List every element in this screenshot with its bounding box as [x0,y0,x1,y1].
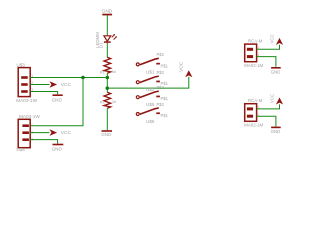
ground RCA top [257,57,281,75]
svg-text:U$3: U$3 [16,62,25,67]
svg-text:U$1: U$1 [146,69,155,74]
resistor R1 [100,57,116,74]
wire [106,15,108,36]
switch U$2 [136,70,168,92]
svg-text:P$2: P$2 [157,85,165,90]
svg-text:P$2: P$2 [157,52,165,57]
svg-text:P$1: P$1 [161,63,169,68]
svg-text:VCC: VCC [269,34,274,43]
node junction C [81,76,85,80]
svg-text:D1: D1 [98,42,103,48]
wire [106,43,108,58]
ground GND top [102,9,113,16]
ground GND bottom middle [101,130,112,137]
ground RCA bottom [257,116,281,134]
node junction B [106,86,110,90]
wire [107,77,189,88]
supply VCC U$4 pin2 [30,129,71,136]
node junction A [106,76,110,80]
svg-text:U$2: U$2 [146,87,155,92]
svg-text:MA02-1M: MA02-1M [244,123,263,128]
svg-text:1k: 1k [112,69,116,74]
wire [106,73,108,92]
svg-text:P$1: P$1 [161,113,169,118]
svg-text:1k: 1k [112,99,116,104]
wire [30,78,83,126]
wire [106,108,108,130]
svg-text:GND: GND [101,132,112,137]
svg-text:GND: GND [102,9,113,14]
connector RCA top [244,38,263,68]
svg-text:1: 1 [31,123,33,127]
svg-text:GND: GND [271,69,281,74]
supply VCC RCA bottom [257,94,284,109]
svg-text:GND: GND [52,147,63,152]
svg-text:VCC: VCC [178,61,184,72]
switch U$6 [136,102,168,124]
svg-text:GND: GND [52,97,63,102]
svg-text:MA03-1W: MA03-1W [19,114,40,119]
svg-text:P$2: P$2 [157,70,165,75]
svg-text:VCC: VCC [61,82,72,88]
connector U$4 [16,114,40,152]
svg-text:VCC: VCC [269,94,274,103]
ground U$3 pin1 [30,92,63,103]
svg-text:U$5: U$5 [146,102,155,107]
supply VCC main [178,61,192,77]
svg-text:U$4: U$4 [16,147,25,152]
svg-text:VCC: VCC [61,130,72,136]
svg-text:P$2: P$2 [157,102,165,107]
svg-text:MA02-1M: MA02-1M [244,63,263,68]
svg-text:R1: R1 [100,69,106,74]
switch U$5 [136,85,168,107]
svg-text:R2: R2 [100,99,106,104]
ground U$4 pin3 [30,140,63,152]
resistor R2 [100,92,116,108]
svg-text:GND: GND [271,129,281,134]
svg-text:P$1: P$1 [161,96,169,101]
svg-text:MA03-1W: MA03-1W [16,98,37,103]
supply VCC RCA top [257,34,284,49]
svg-text:U$6: U$6 [146,119,155,124]
svg-text:RCA-M: RCA-M [248,98,263,103]
wire [30,77,107,79]
supply VCC U$3 pin2 [30,81,71,88]
switch U$1 [136,52,168,74]
svg-text:RCA-M: RCA-M [248,38,263,43]
connector RCA bottom [244,98,263,128]
connector U$3 [16,62,37,102]
LED D1 [95,32,117,48]
